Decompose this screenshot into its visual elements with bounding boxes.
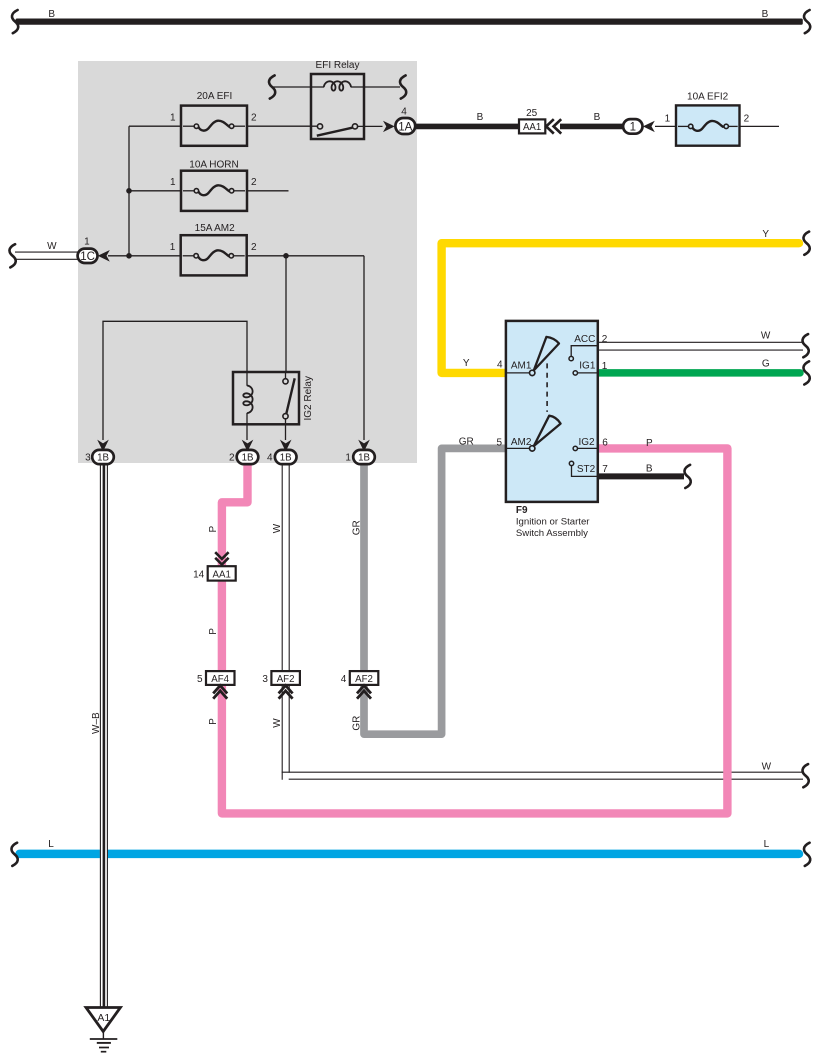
fuse 15A AM2 [181, 235, 247, 275]
break symbol W 1C left [9, 244, 15, 267]
svg-text:1B: 1B [97, 452, 109, 463]
svg-text:AM1: AM1 [511, 360, 532, 371]
svg-text:ST2: ST2 [577, 464, 596, 475]
connector 1C [78, 249, 98, 263]
svg-text:2: 2 [229, 452, 235, 463]
junction dot AM2 branch [283, 253, 289, 259]
wire EFI2 pin2 stub [740, 125, 780, 127]
wire white W from connector 1B pin 4 [282, 464, 803, 780]
svg-text:P: P [208, 628, 219, 635]
svg-text:B: B [594, 112, 601, 123]
svg-text:7: 7 [602, 464, 608, 475]
svg-text:3: 3 [85, 452, 91, 463]
svg-text:1: 1 [170, 112, 176, 123]
wire gray GR from connector 1B pin 1 to AM2 [364, 448, 505, 734]
svg-text:AA1: AA1 [213, 569, 231, 580]
connector 1B pin 2 [237, 450, 259, 464]
svg-text:4: 4 [341, 674, 347, 685]
svg-text:14: 14 [193, 569, 205, 580]
svg-text:GR: GR [459, 437, 474, 448]
svg-text:1: 1 [345, 452, 351, 463]
svg-text:B: B [762, 9, 769, 20]
ground A1 [86, 1008, 120, 1052]
svg-text:IG1: IG1 [579, 360, 596, 371]
svg-text:W: W [272, 718, 283, 728]
wire branch down to connector 1B pin 1 [363, 256, 365, 440]
break symbol EFI relay coil right [400, 75, 406, 98]
wire 10A HORN pin2 stub [247, 190, 289, 192]
svg-text:Ignition or Starter: Ignition or Starter [516, 516, 590, 527]
svg-text:P: P [646, 438, 653, 449]
wire to IG2 relay coil and 1B pin 3 [103, 321, 247, 440]
wire black B 1A to AA1 [415, 124, 519, 130]
connector 1B pin 3 [92, 450, 114, 464]
svg-text:AA1: AA1 [523, 122, 541, 133]
svg-text:25: 25 [526, 108, 538, 119]
junction block shaded area [78, 61, 417, 463]
svg-text:1: 1 [170, 177, 176, 188]
break symbol B ST2 [684, 465, 690, 488]
connector arrow 1B pin 2 [242, 440, 254, 452]
ignition switch F9 [506, 321, 598, 502]
wire feed vertical to fuses [128, 126, 130, 256]
wire W-B from connector 1B pin 3 to ground [100, 464, 108, 1009]
connector 25 AA1 [519, 119, 545, 133]
junction dot at AM2 feed [126, 253, 132, 259]
svg-text:4: 4 [497, 360, 503, 371]
wire white W to 1C [15, 252, 79, 259]
connector 1 [623, 119, 642, 134]
wire pink P from connector 1B pin 2 to IG2 [222, 448, 728, 813]
svg-text:1: 1 [170, 242, 176, 253]
connector 1B pin 4 [275, 450, 297, 464]
bus bar B top [16, 19, 803, 25]
svg-text:F9: F9 [516, 505, 528, 516]
svg-text:4: 4 [401, 106, 407, 117]
connector arrow into 1A [383, 121, 395, 132]
svg-text:AF2: AF2 [355, 674, 373, 685]
svg-text:A1: A1 [97, 1012, 110, 1024]
connector 1B pin 1 [353, 450, 375, 464]
break symbol W ACC right [802, 334, 808, 357]
svg-text:5: 5 [197, 674, 203, 685]
svg-text:AF4: AF4 [211, 674, 229, 685]
break symbol L right [804, 843, 810, 866]
wire yellow Y from ignition switch AM1 [442, 243, 799, 373]
svg-text:3: 3 [262, 674, 268, 685]
svg-text:W: W [762, 761, 772, 772]
svg-text:6: 6 [602, 438, 608, 449]
fuse 10A EFI2 [676, 105, 740, 145]
svg-text:1C: 1C [80, 251, 95, 263]
wire 10A HORN pin1 [129, 190, 181, 192]
break symbol B bus right [804, 10, 810, 33]
connector arrow at 1C [98, 250, 110, 262]
svg-text:1: 1 [630, 122, 636, 134]
connector 14 AA1 [208, 566, 236, 580]
svg-text:W: W [47, 241, 57, 252]
wire 20A EFI pin2 to EFI relay [247, 125, 318, 127]
wire 1C to AM2 fuse pin 1 [108, 255, 181, 257]
break symbol Y right [803, 232, 809, 255]
break symbol EFI relay coil left [269, 75, 275, 98]
svg-text:Y: Y [762, 229, 769, 240]
fuse 20A EFI [181, 106, 247, 146]
chevrons up out of AF2-4 [357, 686, 371, 699]
wire to EFI2 fuse [655, 125, 676, 127]
wire green G from IG1 [599, 369, 801, 377]
wire branch down to IG2 relay switch [285, 256, 287, 372]
chevrons AA1 [546, 119, 561, 133]
svg-text:B: B [646, 464, 653, 475]
connector arrow 1B pin 3 [97, 440, 109, 452]
svg-text:AM2: AM2 [511, 437, 532, 448]
wire white W from ACC [599, 342, 804, 350]
bus bar L blue [20, 850, 800, 859]
break symbol W bottom right [802, 764, 808, 787]
connector 1A [395, 118, 415, 134]
junction dot at HORN feed [126, 188, 132, 194]
svg-text:1A: 1A [398, 122, 412, 134]
svg-text:B: B [477, 112, 484, 123]
svg-text:B: B [48, 9, 55, 20]
svg-text:10A EFI2: 10A EFI2 [687, 92, 729, 103]
wire black B AA1 to 1 [560, 124, 624, 130]
svg-text:GR: GR [351, 716, 362, 731]
connector arrow 1B pin 4 [280, 440, 292, 452]
relay IG2 [233, 372, 299, 440]
wire 20A EFI pin1 [129, 125, 181, 127]
svg-text:4: 4 [267, 452, 273, 463]
svg-text:L: L [764, 839, 770, 850]
svg-text:5: 5 [496, 438, 502, 449]
svg-text:IG2: IG2 [578, 437, 595, 448]
svg-text:20A EFI: 20A EFI [197, 91, 233, 102]
svg-text:2: 2 [251, 112, 257, 123]
connector 5 AF4 [206, 671, 235, 685]
chevrons up out of AF4 [213, 686, 227, 699]
svg-text:W–B: W–B [91, 712, 102, 734]
svg-text:IG2 Relay: IG2 Relay [303, 376, 314, 420]
svg-text:1: 1 [665, 113, 671, 124]
svg-text:P: P [208, 526, 219, 533]
svg-text:G: G [762, 358, 770, 369]
svg-text:W: W [761, 330, 771, 341]
svg-text:2: 2 [251, 242, 257, 253]
svg-text:10A HORN: 10A HORN [189, 159, 238, 170]
svg-text:P: P [208, 718, 219, 725]
fuse 10A HORN [181, 171, 247, 211]
connector arrow 1B pin 1 [358, 440, 370, 452]
break symbol L left [11, 843, 17, 866]
svg-text:2: 2 [251, 177, 257, 188]
svg-text:L: L [48, 839, 54, 850]
wire black B from ST2 [599, 473, 685, 479]
relay EFI [273, 74, 400, 139]
svg-text:2: 2 [744, 113, 750, 124]
svg-text:Switch Assembly: Switch Assembly [516, 528, 588, 539]
connector 3 AF2 [271, 671, 300, 685]
svg-text:1B: 1B [280, 452, 292, 463]
svg-text:2: 2 [602, 334, 608, 345]
svg-text:W: W [272, 523, 283, 533]
connector arrow at 1 [643, 121, 655, 132]
svg-text:Y: Y [463, 358, 470, 369]
svg-text:GR: GR [351, 520, 362, 535]
svg-text:ACC: ACC [574, 334, 595, 345]
svg-text:1: 1 [84, 236, 90, 247]
chevrons down into AA1 pin 14 [215, 552, 228, 564]
svg-text:1B: 1B [242, 452, 254, 463]
break symbol B bus left [12, 10, 18, 33]
connector 4 AF2 [350, 671, 379, 685]
break symbol G right [803, 361, 809, 384]
wire AM2 fuse pin2 to right [247, 255, 364, 257]
svg-text:AF2: AF2 [277, 674, 295, 685]
svg-text:1: 1 [602, 361, 608, 372]
chevrons up out of AF2-3 [279, 686, 293, 699]
svg-text:15A AM2: 15A AM2 [195, 223, 235, 234]
svg-text:EFI Relay: EFI Relay [316, 60, 360, 71]
svg-text:1B: 1B [358, 452, 370, 463]
